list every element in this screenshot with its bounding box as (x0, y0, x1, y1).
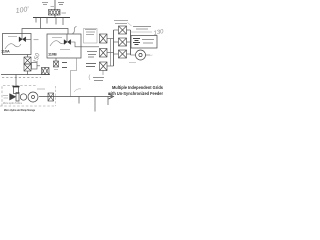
hatched box on bottom bus (42, 68, 50, 75)
bottom bus (1, 74, 50, 76)
svg-text:Micro Hydro and Pump Storage: Micro Hydro and Pump Storage (4, 108, 35, 112)
converter C (100, 62, 108, 71)
faint text inside 110B (52, 37, 62, 39)
converter bowtie 110B (66, 34, 68, 42)
pump valve box (14, 87, 19, 94)
label block B (87, 52, 97, 58)
rung converter 2 (119, 38, 127, 46)
rung3 stubs (114, 53, 119, 55)
dashes below bottom bus (2, 77, 41, 79)
feeder tap mark (51, 6, 55, 8)
bus taps (36, 18, 63, 26)
rail left (113, 30, 115, 66)
feeder transformer hatched box (49, 10, 61, 16)
lower feeder line with arrow (39, 96, 112, 98)
text marks right of load box (62, 63, 67, 68)
label 110 top-right of feeder (58, 3, 64, 5)
arrowhead (109, 94, 114, 99)
wire feeder drop (54, 0, 56, 10)
micro hydro dashed enclosure (2, 86, 36, 107)
water marks (3, 96, 8, 99)
svg-text:110A: 110A (1, 49, 10, 54)
faint mark below load box (54, 69, 58, 71)
wire lower converter to text (102, 70, 104, 75)
battery box (131, 36, 157, 49)
wire bus down to pump (15, 75, 17, 87)
svg-text:Micro Hydro Turbine: Micro Hydro Turbine (3, 101, 22, 105)
wire rail to motor (131, 54, 136, 56)
battery text (142, 40, 154, 44)
load drop below 110B (55, 58, 57, 61)
rung converter 3 (119, 50, 127, 58)
wire motor right (146, 54, 151, 56)
sine wave 110B (50, 41, 66, 46)
sine wave 110A (5, 44, 21, 49)
label 120' squiggle (73, 27, 77, 34)
wire bowtie to box edge (26, 38, 31, 40)
battery symbol (133, 39, 140, 45)
gen label (37, 88, 45, 90)
text above rung 1 (114, 21, 128, 24)
side box of converter stack (32, 63, 41, 70)
wire converter C to rail (107, 65, 114, 67)
brace mark (89, 75, 90, 81)
left converter column: label block A (84, 29, 98, 44)
motor circle (136, 50, 146, 60)
wire 110A box to converters (27, 55, 29, 58)
distribution bus (33, 17, 70, 19)
generator circle (28, 92, 38, 102)
grid block 110A box (3, 34, 32, 55)
grid block 110B box (47, 34, 81, 58)
converter T1 below 110A (24, 57, 31, 64)
wire 110B bottom to lower line (71, 58, 77, 97)
smart grid text above battery (133, 27, 151, 30)
leader diagonal above rung1 (128, 23, 132, 27)
label right of hatched box (62, 12, 67, 14)
small load box below 110B (54, 61, 59, 67)
wire bus to grid block 110A (22, 18, 68, 35)
svg-text:with Un-Synchronized Feeder: with Un-Synchronized Feeder (107, 91, 163, 96)
wire feeder box to bus (54, 15, 56, 18)
grid block 300 text (93, 78, 104, 81)
wire 110B to right converters (71, 42, 99, 47)
turbine small circle (20, 94, 26, 100)
wire converter B to rail (107, 52, 114, 54)
curved leader on lower line (74, 89, 81, 92)
rail left inner (110, 39, 112, 67)
wire converters to bottom bus (27, 71, 29, 75)
faint text inside 110A (8, 36, 17, 38)
turbine cone (10, 94, 17, 101)
converter B (100, 49, 108, 58)
rung converter 1 (119, 26, 127, 34)
converter A (100, 34, 108, 43)
rung1 stubs (114, 29, 119, 31)
converter on lower line (48, 93, 54, 101)
rung2 stubs (114, 41, 119, 43)
label block C (86, 64, 96, 67)
converter bowtie 110A (21, 34, 23, 40)
svg-text:Multiple Independent Grids: Multiple Independent Grids (112, 85, 163, 90)
rail right (130, 30, 132, 55)
lower line taps (79, 97, 108, 112)
label feeder text top-left (42, 3, 48, 5)
svg-text:110B: 110B (48, 52, 57, 57)
faint label below rung3 (129, 62, 136, 64)
converter T2 below 110A (24, 64, 31, 71)
wire converter A to rail (107, 38, 114, 40)
stub outside 110A (34, 39, 39, 41)
